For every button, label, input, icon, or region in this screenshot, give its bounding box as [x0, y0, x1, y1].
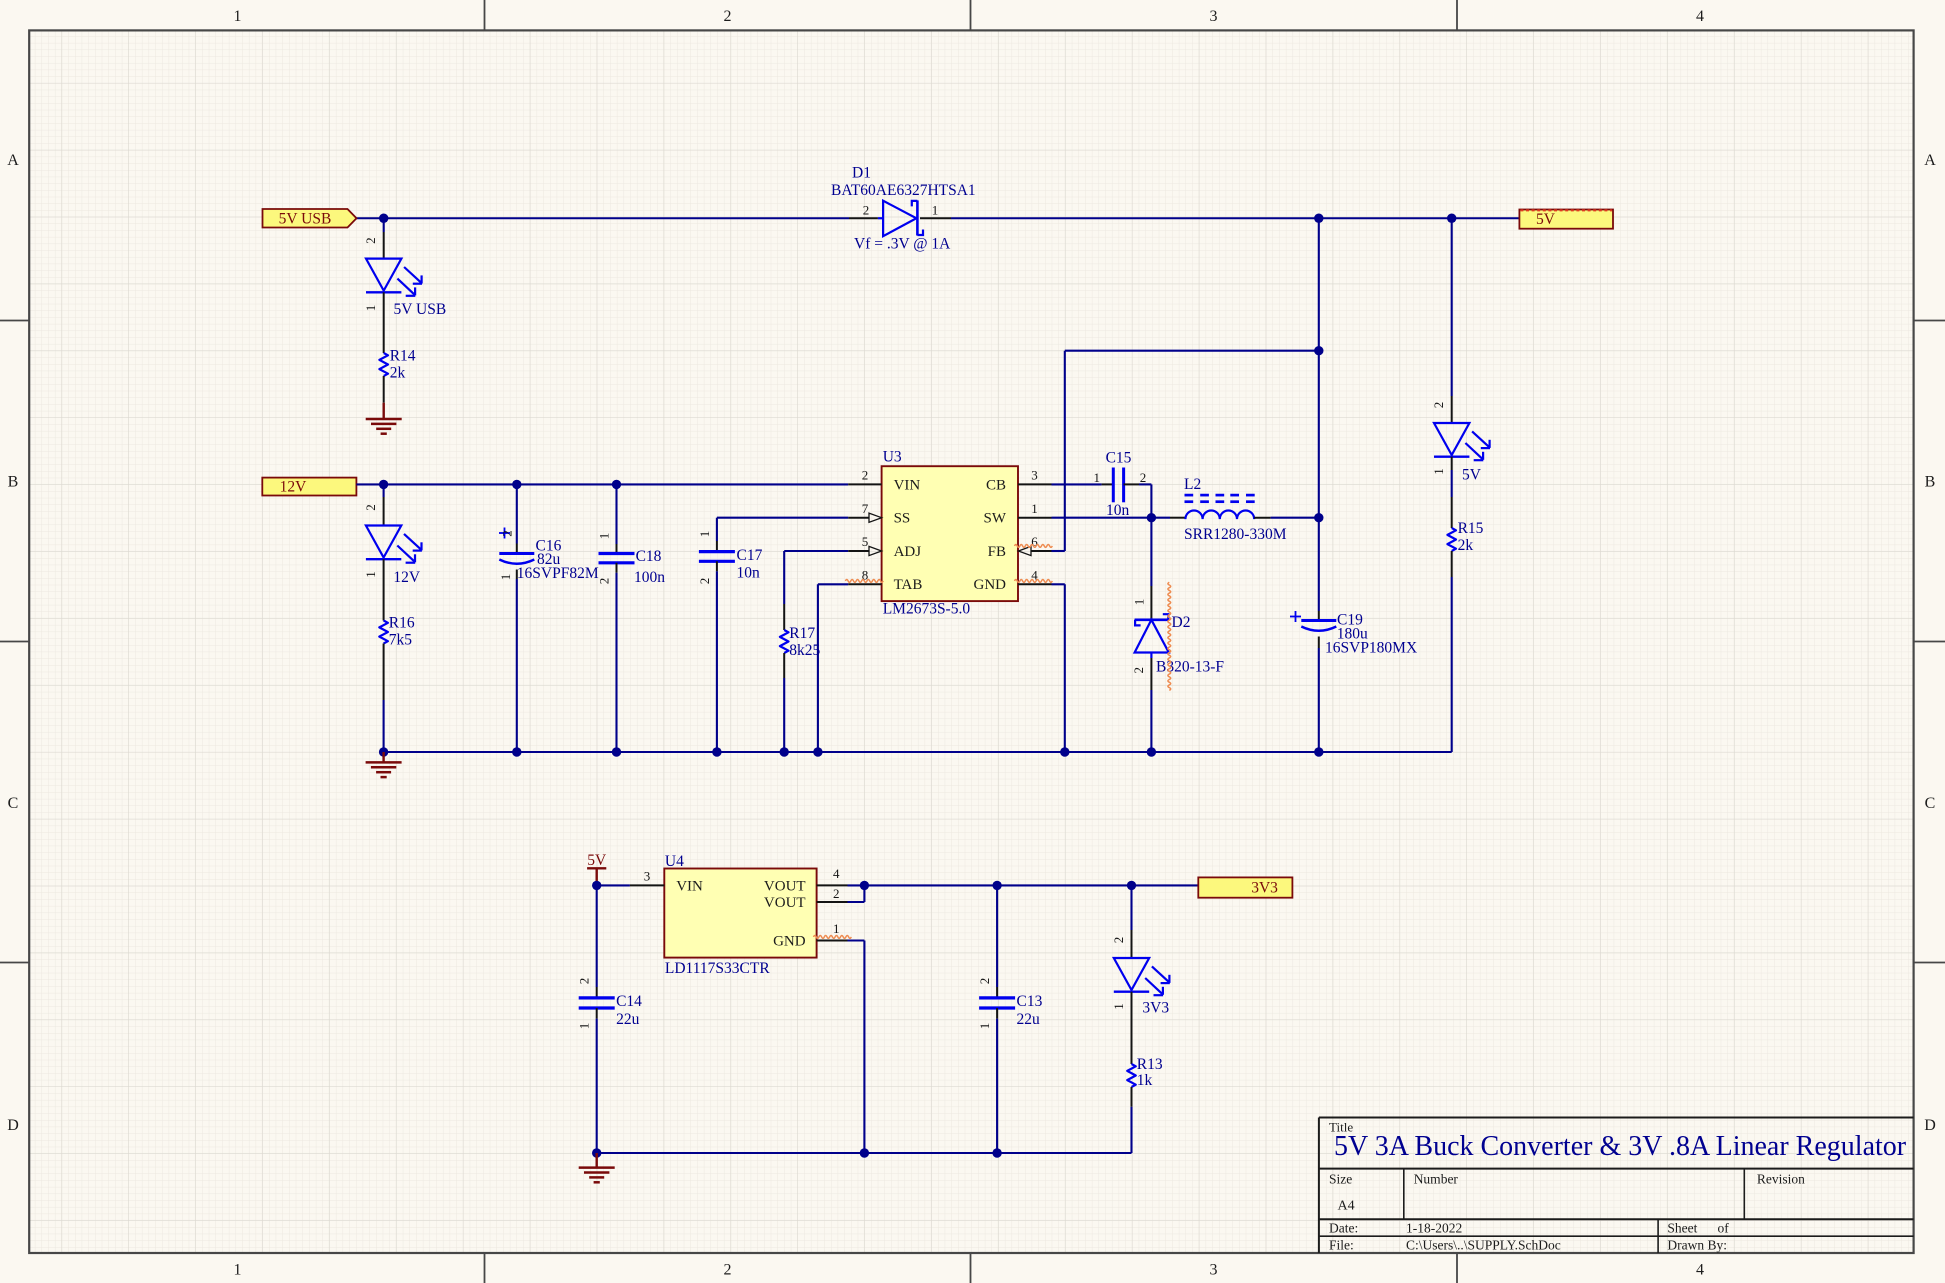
junction lower bus x=596.7	[592, 1148, 601, 1157]
svg-text:2: 2	[724, 8, 732, 25]
svg-text:4: 4	[1696, 8, 1704, 25]
capacitor C16 (polarized)	[499, 484, 534, 752]
svg-text:R15: R15	[1458, 520, 1484, 537]
junction FB tap	[1314, 346, 1323, 355]
no-ERC marker TAB pin	[845, 580, 883, 583]
junction SW node	[1147, 513, 1156, 522]
svg-text:12V: 12V	[393, 569, 421, 586]
svg-text:VIN: VIN	[676, 878, 703, 894]
wire SS net	[717, 517, 848, 519]
wire FB net	[1052, 351, 1319, 551]
svg-text:1: 1	[234, 1262, 242, 1279]
wire ground bus	[384, 751, 1452, 753]
svg-text:12V: 12V	[280, 478, 308, 495]
junction top rail / output node	[1314, 214, 1323, 223]
wire 5V to VIN	[597, 884, 630, 886]
resistor R16	[379, 621, 388, 753]
svg-text:2: 2	[697, 578, 712, 585]
junction C13 tap	[992, 881, 1001, 890]
pin numbers C15	[1093, 470, 1146, 485]
svg-text:1: 1	[1031, 501, 1038, 516]
resistor R14	[379, 353, 388, 403]
wire TAB net	[818, 584, 848, 752]
svg-text:U4: U4	[665, 853, 684, 870]
svg-text:D: D	[7, 1117, 19, 1134]
pin numbers C17	[697, 531, 712, 585]
junction ground bus x=616.5	[612, 747, 621, 756]
pin numbers U3	[862, 468, 1039, 583]
junction ground bus x=716.9	[712, 747, 721, 756]
label LED 5V	[1462, 467, 1482, 484]
port 5V	[1519, 210, 1613, 229]
svg-text:TAB: TAB	[894, 577, 923, 593]
ground at bus	[366, 752, 402, 777]
regulator U4 LD1117S33CTR	[630, 869, 848, 958]
LED 5V USB indicator	[366, 232, 422, 353]
svg-text:22u: 22u	[1017, 1011, 1041, 1028]
wire lower ground bus	[597, 1152, 1132, 1154]
svg-text:GND: GND	[773, 933, 806, 949]
capacitor C15	[1113, 468, 1139, 503]
wire U3 GND net	[1052, 584, 1065, 752]
pin names U3	[894, 477, 1007, 593]
svg-text:16SVPF82M: 16SVPF82M	[517, 565, 599, 582]
svg-text:5V: 5V	[1536, 211, 1556, 228]
pin numbers LED 5V	[1431, 402, 1446, 475]
label C16 82u 16SVPF82M	[517, 538, 599, 582]
svg-text:5V: 5V	[587, 852, 607, 869]
svg-text:1: 1	[363, 305, 378, 312]
svg-text:Revision: Revision	[1757, 1172, 1805, 1187]
svg-text:3: 3	[1210, 8, 1218, 25]
wire U4 GND to lower bus	[848, 941, 865, 1154]
svg-text:1-18-2022: 1-18-2022	[1406, 1221, 1462, 1236]
svg-text:VOUT: VOUT	[764, 878, 806, 894]
svg-text:A4: A4	[1338, 1199, 1355, 1214]
svg-text:10n: 10n	[737, 565, 761, 582]
svg-text:Number: Number	[1414, 1172, 1459, 1187]
diode D1 (Schottky)	[849, 200, 951, 236]
capacitor C13	[979, 885, 1015, 1153]
pin numbers C16	[498, 530, 515, 580]
wire L2 to output node	[1271, 517, 1319, 519]
wire VOUT pin 2 tie	[848, 885, 865, 902]
ground at R14	[366, 403, 402, 434]
label C19 180u 16SVP180MX	[1325, 612, 1417, 657]
svg-text:D2: D2	[1172, 614, 1191, 631]
diode D2 B320-13-F (Schottky)	[1135, 586, 1169, 690]
svg-text:FB: FB	[988, 544, 1006, 560]
svg-text:2k: 2k	[1458, 537, 1474, 554]
svg-text:3V3: 3V3	[1251, 880, 1278, 897]
svg-text:R14: R14	[390, 347, 416, 364]
wire VOUT rail to 3V3 port	[848, 884, 1199, 886]
pin names U4	[676, 878, 806, 949]
no-ERC marker FB pin	[1015, 545, 1053, 548]
junction ground bus x=383.6	[379, 747, 388, 756]
svg-text:ADJ: ADJ	[894, 544, 922, 560]
label U4 LD1117S33CTR	[665, 853, 770, 977]
label R16 7k5	[389, 615, 415, 649]
junction output node / L2	[1314, 513, 1323, 522]
svg-text:D1: D1	[852, 165, 871, 182]
svg-text:2: 2	[363, 504, 378, 511]
svg-text:A: A	[7, 152, 19, 169]
svg-text:8k25: 8k25	[789, 642, 820, 659]
svg-text:1: 1	[234, 8, 242, 25]
svg-text:C18: C18	[636, 548, 662, 565]
svg-text:5V USB: 5V USB	[394, 301, 447, 318]
svg-text:Drawn By:: Drawn By:	[1667, 1238, 1727, 1253]
svg-text:1: 1	[833, 921, 840, 936]
svg-text:1: 1	[577, 1023, 592, 1030]
svg-text:1: 1	[498, 574, 513, 581]
wire 12V rail	[356, 483, 848, 485]
svg-text:VIN: VIN	[894, 477, 921, 493]
svg-text:of: of	[1718, 1221, 1730, 1236]
wire 5V USB rail	[357, 217, 850, 219]
svg-text:Date:: Date:	[1329, 1221, 1358, 1236]
svg-text:C14: C14	[616, 993, 642, 1010]
svg-text:1k: 1k	[1137, 1072, 1153, 1089]
no-ERC marker D2	[1168, 582, 1171, 690]
label R15 2k	[1458, 520, 1484, 554]
label C17 10n	[737, 547, 763, 582]
pin numbers C13	[977, 978, 992, 1030]
capacitor C14	[579, 885, 615, 1153]
svg-text:CB: CB	[986, 477, 1006, 493]
power port 5V	[587, 852, 607, 886]
label R13 1k	[1137, 1056, 1163, 1089]
svg-text:10n: 10n	[1106, 502, 1130, 519]
svg-text:1: 1	[1132, 599, 1147, 606]
svg-text:C15: C15	[1106, 450, 1132, 467]
pin numbers D1	[863, 202, 939, 217]
svg-text:Sheet: Sheet	[1667, 1221, 1697, 1236]
svg-text:16SVP180MX: 16SVP180MX	[1325, 640, 1417, 657]
junction ground bus x=1151.4	[1147, 747, 1156, 756]
svg-text:1: 1	[977, 1023, 992, 1030]
svg-text:U3: U3	[883, 449, 902, 466]
junction lower bus x=864.4	[860, 1148, 869, 1157]
junction ground bus x=1318.8	[1314, 747, 1323, 756]
regulator U3 LM2673S-5.0	[848, 466, 1051, 601]
svg-text:5: 5	[862, 534, 869, 549]
label C14 22u	[616, 993, 642, 1028]
svg-text:C: C	[8, 795, 19, 812]
junction 12V / C16	[512, 480, 521, 489]
pin numbers U4	[644, 866, 840, 936]
junction ground bus x=1064.8	[1060, 747, 1069, 756]
svg-text:VOUT: VOUT	[764, 895, 806, 911]
svg-text:R16: R16	[389, 615, 415, 632]
svg-text:3: 3	[644, 869, 651, 884]
junction 12V / C18	[612, 480, 621, 489]
junction ground bus x=817.9	[813, 747, 822, 756]
ground at U4	[579, 1153, 615, 1182]
capacitor C18	[599, 484, 635, 752]
no-ERC marker GND pin 4	[1015, 580, 1053, 583]
svg-text:L2: L2	[1184, 476, 1201, 493]
svg-text:3V3: 3V3	[1142, 999, 1169, 1016]
svg-text:2: 2	[1111, 937, 1126, 944]
svg-text:3: 3	[1031, 468, 1038, 483]
label C18 100n	[634, 548, 665, 586]
port 5V USB	[263, 209, 357, 228]
svg-text:2: 2	[500, 530, 515, 537]
wire ADJ net	[784, 551, 848, 604]
LED 5V indicator	[1434, 396, 1490, 528]
svg-text:5V: 5V	[1462, 467, 1482, 484]
label LED 12V	[393, 569, 421, 586]
svg-text:C:\Users\..\SUPPLY.SchDoc: C:\Users\..\SUPPLY.SchDoc	[1406, 1238, 1561, 1253]
svg-text:1: 1	[596, 533, 611, 540]
label D1 BAT60AE6327HTSA1	[831, 165, 976, 253]
junction 5V feed	[592, 881, 601, 890]
label U3 LM2673S-5.0	[883, 449, 971, 618]
svg-text:2: 2	[363, 237, 378, 244]
junction VOUT tie	[860, 881, 869, 890]
svg-text:BAT60AE6327HTSA1: BAT60AE6327HTSA1	[831, 182, 976, 199]
capacitor C19 (polarized)	[1290, 611, 1336, 752]
svg-text:1: 1	[1431, 468, 1446, 475]
port 12V	[262, 478, 356, 496]
junction top rail / R15 branch	[1447, 214, 1456, 223]
pin numbers C14	[577, 978, 592, 1030]
wire CB net	[1052, 483, 1114, 485]
wire output node vertical	[1318, 218, 1320, 611]
no-ERC marker U4 GND pin	[814, 936, 852, 939]
svg-text:D: D	[1924, 1117, 1936, 1134]
svg-text:SS: SS	[894, 511, 911, 527]
LED 12V indicator	[366, 484, 422, 620]
port 3V3	[1198, 877, 1292, 897]
svg-text:2: 2	[596, 578, 611, 585]
junction ground bus x=784.2	[780, 747, 789, 756]
svg-text:File:: File:	[1329, 1238, 1354, 1253]
wire D1 cathode to 5V port	[951, 217, 1519, 219]
svg-text:LM2673S-5.0: LM2673S-5.0	[883, 601, 971, 618]
svg-text:B320-13-F: B320-13-F	[1156, 659, 1224, 676]
svg-text:2: 2	[833, 886, 840, 901]
label R14 2k	[390, 347, 416, 381]
svg-text:2: 2	[577, 978, 592, 985]
svg-text:7k5: 7k5	[389, 632, 413, 649]
pin numbers LED 5V USB	[363, 237, 378, 311]
svg-text:2k: 2k	[390, 364, 406, 381]
svg-text:5V USB: 5V USB	[279, 211, 332, 228]
pin numbers C18	[596, 533, 611, 585]
svg-text:3: 3	[1210, 1262, 1218, 1279]
svg-text:2: 2	[862, 468, 869, 483]
label C13 22u	[1017, 993, 1043, 1028]
svg-text:1: 1	[697, 531, 712, 538]
svg-text:2: 2	[863, 202, 870, 217]
svg-text:7: 7	[862, 501, 869, 516]
pin numbers LED 3V3	[1111, 937, 1126, 1010]
label LED 3V3	[1142, 999, 1169, 1016]
wire SW net	[1052, 517, 1171, 519]
svg-text:1: 1	[363, 571, 378, 578]
wire C15 to SW node	[1139, 484, 1151, 517]
svg-text:C17: C17	[737, 547, 763, 564]
junction top rail / LED1 branch	[379, 214, 388, 223]
svg-text:2: 2	[724, 1262, 732, 1279]
junction 12V / LED2 branch	[379, 480, 388, 489]
svg-text:2: 2	[1140, 470, 1147, 485]
label L2 SRR1280-330M	[1184, 476, 1287, 543]
svg-text:C13: C13	[1017, 993, 1043, 1010]
resistor R17	[780, 604, 789, 752]
wire SW to D2	[1150, 518, 1152, 586]
svg-text:Vf = .3V @ 1A: Vf = .3V @ 1A	[854, 236, 951, 253]
junction lower bus x=997.1	[992, 1148, 1001, 1157]
pin numbers LED 12V	[363, 504, 378, 578]
svg-text:Size: Size	[1329, 1172, 1352, 1187]
inductor L2 SRR1280-330M	[1170, 495, 1271, 519]
svg-text:2: 2	[977, 978, 992, 985]
junction LED 3V3 tap	[1127, 881, 1136, 890]
svg-text:5V 3A Buck Converter & 3V .8A: 5V 3A Buck Converter & 3V .8A Linear Reg…	[1334, 1131, 1907, 1162]
LED 3V3 indicator	[1114, 885, 1170, 1064]
svg-text:A: A	[1924, 152, 1936, 169]
label C15 10n	[1106, 450, 1132, 520]
label LED 5V USB	[394, 301, 447, 318]
label D2 B320-13-F	[1156, 614, 1224, 676]
svg-text:4: 4	[833, 866, 840, 881]
capacitor C17	[699, 518, 735, 752]
svg-text:SW: SW	[984, 511, 1007, 527]
svg-text:2: 2	[1431, 402, 1446, 409]
svg-text:1: 1	[1111, 1003, 1126, 1010]
svg-text:LD1117S33CTR: LD1117S33CTR	[665, 960, 770, 977]
svg-text:4: 4	[1696, 1262, 1704, 1279]
svg-text:2: 2	[1131, 667, 1146, 674]
wire LED1 branch	[383, 218, 385, 232]
pin numbers D2	[1131, 599, 1146, 674]
wire 5V indicator branch	[1451, 218, 1453, 396]
resistor R15	[1447, 528, 1456, 752]
junction ground bus x=516.8	[512, 747, 521, 756]
svg-text:R17: R17	[789, 625, 815, 642]
resistor R13	[1127, 1064, 1136, 1153]
svg-text:1: 1	[1093, 470, 1100, 485]
svg-text:C: C	[1925, 795, 1936, 812]
svg-text:SRR1280-330M: SRR1280-330M	[1184, 526, 1287, 543]
svg-text:22u: 22u	[616, 1011, 640, 1028]
svg-text:100n: 100n	[634, 569, 665, 586]
svg-text:GND: GND	[974, 577, 1007, 593]
wire D2 to ground bus	[1150, 690, 1152, 752]
svg-text:1: 1	[932, 202, 939, 217]
svg-text:B: B	[1925, 474, 1936, 491]
label R17 8k25	[789, 625, 820, 659]
svg-text:B: B	[8, 474, 19, 491]
svg-text:R13: R13	[1137, 1056, 1163, 1073]
title block	[1319, 1118, 1914, 1254]
